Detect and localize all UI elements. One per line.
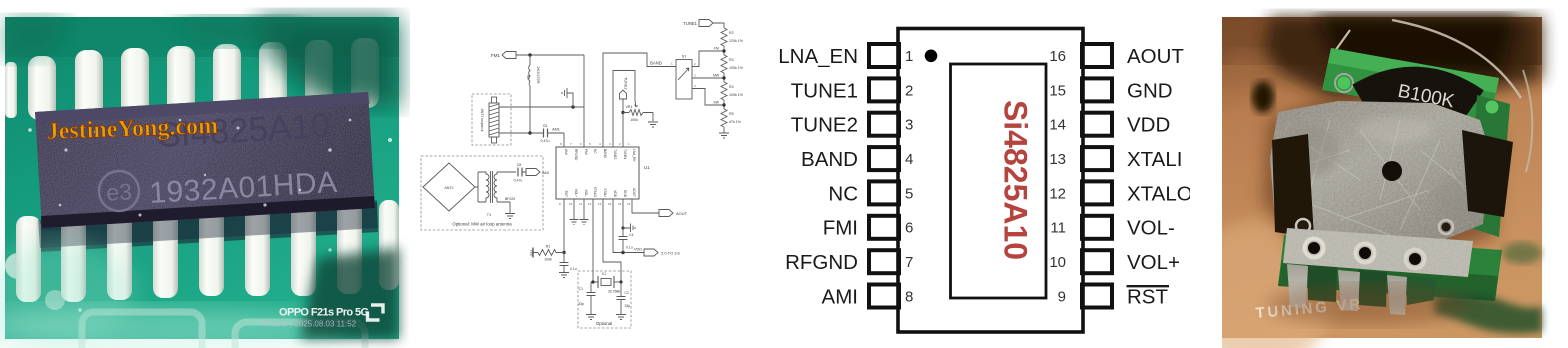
wire BAND net xyxy=(603,53,676,147)
photo: light bottom-left cardboard xyxy=(1183,220,1333,348)
svg-text:R5: R5 xyxy=(729,112,734,116)
wire C3 xyxy=(563,253,565,273)
svg-text:13: 13 xyxy=(598,202,602,206)
svg-text:RST: RST xyxy=(564,191,568,197)
pin 6 FMI xyxy=(823,216,914,240)
potentiometer VR1 100k xyxy=(623,110,653,122)
photo: e3 circle logo xyxy=(98,170,140,212)
power VDD bar xyxy=(532,248,534,258)
resistor R5 47k 1% xyxy=(721,109,727,133)
potentiometer VR1 100k wiper arrow xyxy=(635,101,638,107)
svg-text:Optional: Optional xyxy=(596,321,612,326)
photo: dark top-left corner xyxy=(5,17,70,62)
ground (VOL-) xyxy=(580,220,589,225)
svg-text:GND: GND xyxy=(623,190,627,198)
svg-text:XTALI: XTALI xyxy=(603,188,607,197)
photo: center shaft hole xyxy=(1382,161,1402,181)
photo: dark gaps between legs xyxy=(1307,264,1337,302)
svg-text:5: 5 xyxy=(905,185,913,202)
svg-text:Thrissur | 2025.08.03 11:52: Thrissur | 2025.08.03 11:52 xyxy=(259,320,357,329)
svg-text:7: 7 xyxy=(570,142,572,146)
svg-text:TUNE2: TUNE2 xyxy=(624,77,628,89)
svg-text:0.1u: 0.1u xyxy=(626,246,633,250)
svg-text:AOUT: AOUT xyxy=(632,188,636,197)
photo: dark brown top shadow xyxy=(1222,17,1542,65)
photo: bottom green strip xyxy=(1278,235,1502,301)
photo: green PCB right edge xyxy=(1468,95,1510,237)
pin labels top row xyxy=(564,149,636,162)
port AOUT xyxy=(659,210,673,217)
svg-text:6: 6 xyxy=(580,142,582,146)
photo: dark top-right board shadow xyxy=(255,17,399,108)
svg-text:0.1u: 0.1u xyxy=(570,267,577,271)
pin 1 marker dot xyxy=(925,50,938,63)
svg-text:VDD: VDD xyxy=(613,190,617,197)
ground (GND pin, bar style) xyxy=(623,224,635,233)
svg-text:3: 3 xyxy=(609,142,611,146)
pin 5 NC xyxy=(828,181,913,205)
wire loopstick top to RFGND xyxy=(499,106,584,108)
svg-text:BAND: BAND xyxy=(650,61,662,66)
svg-text:16: 16 xyxy=(1049,48,1066,65)
pin 15 GND xyxy=(1049,78,1172,102)
pin numbers top xyxy=(560,142,630,146)
svg-text:FMI: FMI xyxy=(584,149,588,155)
svg-text:VOL+: VOL+ xyxy=(574,189,578,197)
photo: right black wing xyxy=(1462,130,1513,217)
svg-text:ANT1 loopstick: ANT1 loopstick xyxy=(480,109,484,132)
wire C4 xyxy=(622,228,624,253)
pin 12 XTALO xyxy=(1049,181,1192,205)
photo: shadow under pot bottom xyxy=(1268,285,1468,325)
capacitor C2 33p xyxy=(617,297,626,300)
photo: small screw dots on plate xyxy=(1299,222,1308,231)
svg-text:9: 9 xyxy=(1058,288,1066,305)
resistor R1 100k xyxy=(533,250,564,256)
photo: pot legs xyxy=(1287,264,1407,315)
wire XTALI to crystal xyxy=(603,199,621,282)
svg-text:C2: C2 xyxy=(625,291,629,295)
wire crystal right xyxy=(614,281,621,283)
wire TUNE1 to ladder xyxy=(713,23,724,28)
photo: green PCB background xyxy=(5,17,399,339)
node AM1 junction xyxy=(528,131,531,134)
wire VOL+ to ground xyxy=(573,199,575,219)
photo: solder via bottom left xyxy=(5,253,31,279)
svg-text:33p: 33p xyxy=(578,302,584,306)
photo: solder holes on flange xyxy=(1305,239,1425,269)
svg-text:VDD: VDD xyxy=(1127,114,1170,137)
svg-text:BAND: BAND xyxy=(801,148,858,171)
svg-text:5: 5 xyxy=(589,142,591,146)
svg-text:TUNE2: TUNE2 xyxy=(791,114,858,137)
svg-text:ANT2: ANT2 xyxy=(445,186,454,190)
photo: potentiometer green PCB top band xyxy=(1322,48,1499,120)
wire VOL- to ground xyxy=(583,199,585,219)
coil ANT1 xyxy=(489,97,499,143)
svg-text:C5: C5 xyxy=(543,124,548,128)
node RST junction xyxy=(562,251,565,254)
svg-text:4: 4 xyxy=(599,142,601,146)
node tap MW xyxy=(722,76,725,79)
ground (ladder) xyxy=(719,133,729,138)
IC Si4825A10 package outline xyxy=(898,29,1083,333)
ground (C1) xyxy=(586,315,596,320)
photo: white wire arc top right xyxy=(1392,20,1521,98)
port TUNE1 xyxy=(699,20,713,27)
photo: IC chip body xyxy=(35,92,375,228)
svg-text:R4: R4 xyxy=(729,85,734,89)
svg-text:OPPO F21s Pro 5G: OPPO F21s Pro 5G xyxy=(279,307,368,319)
photo: OPPO logo mark xyxy=(368,305,384,320)
resistor R2 120k 1% xyxy=(721,28,727,55)
svg-text:XTALO: XTALO xyxy=(1127,182,1190,205)
svg-text:3: 3 xyxy=(905,117,913,134)
photo: metal flange over legs xyxy=(1283,228,1473,277)
wire T1 bottom to ground xyxy=(497,202,510,213)
photo: IC bottom pin row xyxy=(16,200,399,302)
svg-text:VOL+: VOL+ xyxy=(1127,251,1180,274)
svg-text:XTALO: XTALO xyxy=(593,187,597,198)
svg-text:2: 2 xyxy=(905,82,913,99)
pin 8 AMI xyxy=(822,285,914,309)
wire AOUT xyxy=(632,199,659,213)
pin numbers bottom xyxy=(559,202,631,206)
wire RST pulldown xyxy=(563,199,565,253)
svg-text:LNA_EN: LNA_EN xyxy=(778,45,858,68)
svg-text:6: 6 xyxy=(905,220,913,237)
node tap SW xyxy=(722,103,725,106)
wire C5 to AMI pin xyxy=(548,133,565,147)
crystal X1 32.768kHz xyxy=(598,276,614,288)
capacitor C5 0.47u xyxy=(544,129,548,138)
svg-text:47k 1%: 47k 1% xyxy=(729,120,742,124)
photo: cyan glow bottom left xyxy=(0,240,135,340)
svg-text:GND: GND xyxy=(1127,79,1173,102)
pin 7 RFGND xyxy=(785,250,913,274)
pin numbers S1 right xyxy=(694,62,696,88)
svg-text:8: 8 xyxy=(905,288,913,305)
pin 16 AOUT xyxy=(1049,44,1184,68)
svg-text:100k 1%: 100k 1% xyxy=(729,66,744,70)
svg-text:R2: R2 xyxy=(729,31,734,35)
pin labels bottom row xyxy=(564,187,636,198)
pin 13 XTALI xyxy=(1049,147,1182,171)
svg-text:LNA_EN: LNA_EN xyxy=(632,149,636,162)
svg-text:VDD: VDD xyxy=(634,248,642,252)
svg-text:2: 2 xyxy=(694,62,696,66)
wire C2 xyxy=(620,282,622,314)
wire S1 to tap FM xyxy=(692,51,724,67)
pin 9 RST (active low) xyxy=(1058,285,1169,309)
wire VDD net xyxy=(613,199,644,253)
svg-text:AM1: AM1 xyxy=(552,128,560,132)
photo: dark bottom right corner xyxy=(300,248,399,339)
photo: metal frame plate xyxy=(1270,101,1490,249)
switch S1 xyxy=(676,60,692,100)
photo: green PCB left lower edge xyxy=(1289,208,1333,290)
crystal box (optional, dashed) xyxy=(578,271,631,328)
switch S1 arrow xyxy=(678,68,689,80)
photo: dust specks xyxy=(59,119,352,217)
svg-text:AMI: AMI xyxy=(542,171,549,175)
svg-text:U1: U1 xyxy=(644,165,650,170)
svg-text:RFGND: RFGND xyxy=(785,251,858,274)
svg-text:1: 1 xyxy=(671,62,673,66)
photo: small wire glint top left of pot xyxy=(1330,30,1350,58)
ground (VR1) xyxy=(648,122,658,127)
svg-text:AMI: AMI xyxy=(822,285,858,308)
resistor R6 2K2/270R xyxy=(529,55,530,133)
svg-text:12: 12 xyxy=(588,202,592,206)
svg-text:120k 1%: 120k 1% xyxy=(729,39,744,43)
pin 14 VDD xyxy=(1049,113,1170,137)
svg-text:S1: S1 xyxy=(682,55,687,59)
capacitor C4 0.1u xyxy=(619,237,628,240)
svg-text:R3: R3 xyxy=(729,58,734,62)
pin 3 TUNE2 xyxy=(791,113,914,137)
wire crystal left xyxy=(591,282,598,292)
svg-text:16: 16 xyxy=(627,202,631,206)
svg-text:3: 3 xyxy=(694,74,696,78)
svg-text:8: 8 xyxy=(560,142,562,146)
svg-text:4: 4 xyxy=(694,84,696,88)
svg-text:7: 7 xyxy=(905,254,913,271)
svg-text:RST: RST xyxy=(1127,285,1168,308)
svg-text:2.0 TO 3.6: 2.0 TO 3.6 xyxy=(661,251,681,256)
svg-text:T1: T1 xyxy=(487,213,491,217)
photo: cardboard background xyxy=(1222,17,1542,338)
op IC U1 Si4825 body xyxy=(556,147,639,199)
svg-text:VDD: VDD xyxy=(530,250,534,257)
svg-text:11: 11 xyxy=(1050,220,1066,237)
svg-text:100k: 100k xyxy=(630,118,638,122)
svg-text:MW: MW xyxy=(713,74,720,78)
svg-text:1: 1 xyxy=(628,142,630,146)
photo: pcb trace outlines bottom xyxy=(82,312,365,348)
svg-text:TUNE2: TUNE2 xyxy=(613,149,617,160)
photo: screw hole top left (bright green) xyxy=(1338,77,1351,90)
svg-text:X1: X1 xyxy=(602,272,606,276)
resistor R4 100k 1% xyxy=(721,82,727,109)
capacitor C8 0.47u xyxy=(518,168,522,177)
node VDD junction xyxy=(621,251,624,254)
svg-text:32.768k: 32.768k xyxy=(608,290,620,294)
wire XTALO to crystal xyxy=(592,199,594,282)
wire loopstick bottom to C5 xyxy=(499,132,544,134)
svg-text:15: 15 xyxy=(618,202,622,206)
ground (VOL+) xyxy=(570,220,579,225)
svg-text:BF020: BF020 xyxy=(505,197,515,201)
wire FM1 to FMI xyxy=(516,55,584,147)
svg-text:NC: NC xyxy=(828,182,858,205)
svg-text:FM: FM xyxy=(714,47,719,51)
svg-text:C4: C4 xyxy=(629,233,633,237)
svg-text:10: 10 xyxy=(569,202,573,206)
svg-text:4: 4 xyxy=(905,151,913,168)
resistor R3 100k 1% xyxy=(721,55,727,82)
svg-text:100k: 100k xyxy=(544,258,552,262)
svg-text:0.47u: 0.47u xyxy=(514,179,523,183)
photo: screw hole top right (green) xyxy=(1486,101,1499,114)
wire TUNE1 pin to pot xyxy=(613,71,635,148)
capacitor C1 33p xyxy=(587,293,596,296)
svg-text:TUNE1: TUNE1 xyxy=(791,79,858,102)
svg-text:R6: R6 xyxy=(526,75,530,80)
svg-text:FMI: FMI xyxy=(823,217,858,240)
wire GND pin down xyxy=(622,199,624,228)
ground (RF ground) xyxy=(562,88,573,107)
IC inner die rectangle xyxy=(951,64,1047,298)
photo: IC top pin row xyxy=(5,38,379,120)
wire S1 to tap SW xyxy=(692,89,724,106)
photo: left black wing xyxy=(1272,134,1314,238)
photo: pot rotary black track arc with B100K xyxy=(1362,86,1473,106)
photo: dark green smudge bottom right xyxy=(1434,294,1542,333)
svg-text:2K2/270R: 2K2/270R xyxy=(536,67,540,84)
ground (C2) xyxy=(616,315,626,320)
svg-text:BAND: BAND xyxy=(603,149,607,159)
svg-text:TUNE1: TUNE1 xyxy=(623,149,627,160)
antenna ANT1 AM loopstick (optional, dashed) xyxy=(472,94,511,145)
photo: plate scratches xyxy=(1290,120,1480,235)
svg-text:14: 14 xyxy=(1049,117,1066,134)
photo: chip shadow over pin tops xyxy=(38,200,378,248)
node RFGND junction xyxy=(571,105,574,108)
svg-text:VR1: VR1 xyxy=(626,105,633,109)
svg-text:XTALI: XTALI xyxy=(1127,148,1182,171)
wire C1 to ground xyxy=(590,296,592,315)
photo: plate darker blotches xyxy=(1280,125,1340,175)
svg-text:C8: C8 xyxy=(517,163,522,167)
pin 10 VOL+ xyxy=(1049,250,1180,274)
svg-text:15: 15 xyxy=(1049,82,1066,99)
svg-text:0.47u: 0.47u xyxy=(541,139,550,143)
pin 2 TUNE1 xyxy=(791,78,914,102)
svg-text:13: 13 xyxy=(1049,151,1066,168)
photo: shadow band under chip xyxy=(38,202,378,252)
svg-text:12: 12 xyxy=(1049,185,1066,202)
svg-text:R1: R1 xyxy=(546,245,551,249)
pin 1 LNA_EN xyxy=(778,44,913,68)
transformer T1 xyxy=(486,171,497,203)
svg-text:100k 1%: 100k 1% xyxy=(729,93,744,97)
wire T1 to C8 xyxy=(497,171,516,173)
node FM1/R6 junction xyxy=(528,53,531,56)
photo: hole in cardboard left xyxy=(1252,81,1274,113)
antenna ANT2 MW air loop (optional, dashed box) xyxy=(421,156,543,230)
svg-text:VOL-: VOL- xyxy=(1127,217,1175,240)
node GND junction xyxy=(621,226,624,229)
svg-text:C1: C1 xyxy=(579,287,583,291)
svg-text:1: 1 xyxy=(905,48,913,65)
svg-text:AOUT: AOUT xyxy=(1127,45,1184,68)
ground (T1) xyxy=(505,214,515,219)
pin 11 VOL- xyxy=(1050,216,1174,240)
svg-text:FM1: FM1 xyxy=(491,53,500,58)
port FM1 xyxy=(502,52,516,59)
wire S1 to tap MW xyxy=(692,77,724,79)
wire loop to T1 xyxy=(475,172,486,202)
svg-text:SW: SW xyxy=(714,101,720,105)
svg-text:TUNE1: TUNE1 xyxy=(683,21,697,26)
node tap FM xyxy=(722,49,725,52)
svg-text:AMI: AMI xyxy=(564,149,568,155)
node pot wiper junction xyxy=(621,111,624,114)
port VDD supply xyxy=(644,249,658,256)
photo: darker top strip xyxy=(5,17,399,57)
svg-text:11: 11 xyxy=(579,202,582,206)
svg-text:e3: e3 xyxy=(106,178,133,205)
photo: shadow halo around pot xyxy=(1262,100,1500,260)
svg-text:Optional: MW air loop antenna: Optional: MW air loop antenna xyxy=(452,222,512,227)
svg-text:VOL-: VOL- xyxy=(584,190,588,197)
pin 4 BAND xyxy=(801,147,913,171)
ground (RST C3) xyxy=(559,273,569,278)
port AMI xyxy=(522,169,540,176)
svg-text:14: 14 xyxy=(608,202,612,206)
svg-text:9: 9 xyxy=(559,202,561,206)
node XTALI xyxy=(619,280,622,283)
svg-text:33p: 33p xyxy=(625,304,631,308)
port TUNE2 (arrow tag) xyxy=(620,90,627,113)
svg-text:RFGND: RFGND xyxy=(574,149,578,161)
svg-text:Si4825A10: Si4825A10 xyxy=(998,100,1034,260)
node XTALO xyxy=(591,280,594,283)
capacitor C3 xyxy=(560,263,569,266)
loop antenna ANT2 diamond xyxy=(423,163,475,211)
svg-text:NC: NC xyxy=(593,149,597,154)
svg-text:10: 10 xyxy=(1049,254,1066,271)
svg-text:2: 2 xyxy=(619,142,621,146)
svg-text:AOUT: AOUT xyxy=(676,211,688,216)
